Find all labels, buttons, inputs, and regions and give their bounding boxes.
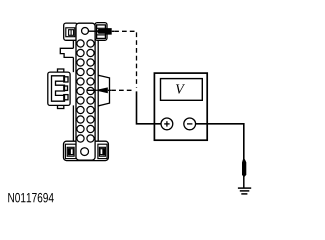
voltmeter negative terminal — [184, 118, 196, 130]
connector J1 right wedge — [98, 75, 109, 106]
connector J1 bottom flange band — [64, 141, 109, 160]
connector J1 left step tab — [60, 48, 73, 57]
pin cavity rows (two columns) — [77, 40, 94, 142]
voltmeter display window — [161, 79, 203, 101]
wire from ground probe to ground — [243, 176, 245, 188]
bottom flange left latch detail — [65, 144, 76, 158]
connector J1 top-right wing — [95, 23, 107, 41]
dashed test lead from middle probe — [111, 89, 133, 91]
middle probe lead stub — [108, 89, 111, 91]
connector J2 small side connector — [48, 69, 70, 109]
positive probe plug (top) — [97, 28, 112, 34]
connector J1 top-left wing — [64, 23, 78, 40]
dashed test lead from top probe to junction — [114, 31, 136, 87]
voltmeter U1 case — [154, 73, 207, 140]
connector J1 left outer wall — [72, 40, 74, 141]
pin 1 (top single cavity) — [82, 27, 89, 34]
connector J1 right outer wall — [97, 40, 99, 141]
figure label N0117694 — [8, 193, 53, 203]
bottom single cavity — [81, 148, 89, 156]
wire from voltmeter negative terminal to ground probe — [196, 124, 244, 160]
ground symbol — [238, 188, 251, 194]
probe tip (middle pin) — [95, 87, 108, 93]
wire from pin 1 to positive probe — [88, 30, 99, 32]
bottom flange right latch detail — [98, 144, 107, 158]
wire through middle pin to negative-side probe — [87, 89, 97, 91]
wire from junction to voltmeter positive terminal — [137, 91, 162, 123]
voltmeter positive terminal — [161, 118, 173, 130]
voltmeter display label V — [176, 84, 185, 93]
positive probe lead stub — [112, 30, 114, 32]
ground probe body — [242, 159, 246, 176]
connector J1 main body — [76, 23, 95, 160]
